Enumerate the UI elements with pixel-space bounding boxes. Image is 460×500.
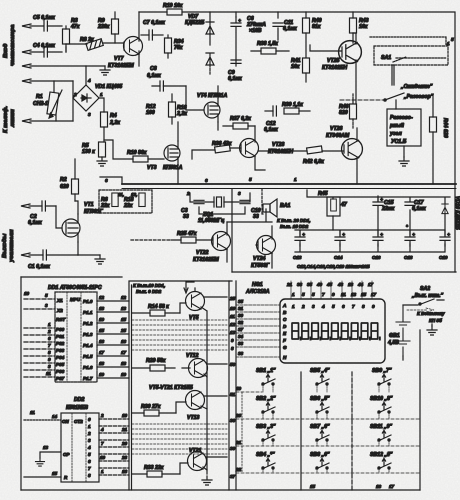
capacitor C8 [152,81,186,91]
svg-text:16: 16 [122,469,128,474]
svg-text:21: 21 [286,282,293,287]
button SB6 [316,402,329,413]
capacitor C1 [29,250,78,260]
svg-text:CP: CP [63,452,70,457]
svg-text:SB8 „0”: SB8 „0” [310,452,330,458]
button SB8 [316,458,329,469]
svg-text:R19 10к: R19 10к [163,3,183,9]
svg-text:13: 13 [230,330,236,335]
svg-text:31: 31 [238,306,244,311]
svg-text:0: 0 [88,417,91,422]
svg-text:0,1мк: 0,1мк [412,206,426,212]
svg-text:A: A [282,303,286,308]
resistor R4 [101,112,108,142]
svg-text:56: 56 [230,362,236,367]
svg-text:SB11 „9”: SB11 „9” [370,424,393,430]
svg-text:22мк: 22мк [381,206,395,212]
svg-text:2,2к: 2,2к [176,111,187,117]
svg-text:R30 27к: R30 27к [141,404,161,410]
svg-text:32: 32 [238,320,244,325]
svg-text:38: 38 [238,351,244,356]
svg-text:11: 11 [230,314,235,319]
svg-text:47: 47 [340,202,348,208]
svg-text:BA1: BA1 [280,203,290,209]
svg-text:SB9 „7”: SB9 „7” [372,368,392,374]
svg-text:5: 5 [88,452,91,457]
svg-text:2: 2 [100,413,104,418]
svg-text:0,1мк: 0,1мк [283,26,297,32]
svg-text:20: 20 [235,413,242,418]
display HG1 box [280,299,385,363]
svg-text:18: 18 [348,282,354,287]
wire left bus of power area [262,189,263,214]
svg-text:P1.1: P1.1 [83,310,93,315]
svg-text:HG1: HG1 [252,282,263,288]
svg-text:P35: P35 [56,362,65,367]
speaker BA1 [263,199,277,217]
svg-text:1: 1 [88,424,91,429]
svg-text:5: 5 [45,293,48,298]
svg-text:21: 21 [121,427,128,432]
capacitor C7 [141,30,163,40]
svg-text:6: 6 [48,336,51,341]
capacitor C17 [405,202,415,205]
svg-text:E: E [283,331,287,336]
svg-text:C13: C13 [293,255,302,260]
svg-text:1: 1 [292,304,295,309]
svg-text:КТ940АМ: КТ940АМ [326,133,350,139]
svg-text:R38 1,5к: R38 1,5к [257,41,278,47]
outer frame bottom [21,489,420,491]
capacitor C5 [44,21,62,31]
svg-text:4: 4 [87,445,91,450]
svg-text:Разгово-: Разгово- [390,115,413,121]
resistor R40 [303,12,310,57]
ground VT1 source [95,255,105,264]
ground under VT21 [202,476,212,485]
svg-text:Вык. 9 DD2: Вык. 9 DD2 [136,289,162,294]
svg-text:VT4 КП501А: VT4 КП501А [197,93,228,99]
svg-text:P1.6: P1.6 [83,365,93,370]
svg-text:16: 16 [376,484,382,489]
svg-text:19: 19 [99,372,105,377]
svg-text:17: 17 [368,282,374,287]
wire node R4/R5 to R10 [104,140,133,159]
transistor VT13 [186,391,205,410]
outer frame left vertical [20,277,22,490]
svg-text:P1.4: P1.4 [83,343,93,348]
resistor R8 (trimmer) [86,39,103,51]
svg-text:25: 25 [229,296,236,301]
section divider x129 [129,281,232,490]
wire driver matrix rows 1 [132,320,227,350]
svg-text:39: 39 [230,446,236,451]
svg-text:R36 43к: R36 43к [212,141,232,147]
svg-text:12: 12 [121,295,127,300]
svg-text:44: 44 [357,282,364,287]
svg-text:SB7 „6”: SB7 „6” [310,424,330,430]
svg-text:3: 3 [312,304,315,309]
svg-text:X2: X2 [56,308,63,313]
svg-text:R45: R45 [318,191,328,197]
svg-text:1: 1 [292,292,295,297]
resistor R3 [63,26,70,52]
svg-text:P1.7: P1.7 [83,376,93,381]
svg-text:16: 16 [121,339,127,344]
svg-text:усилителя: усилителя [9,229,15,263]
svg-text:51: 51 [230,392,236,397]
svg-text:P1.3: P1.3 [83,332,93,337]
svg-text:5: 5 [332,304,335,309]
svg-text:11,059МГц: 11,059МГц [198,218,225,224]
svg-text:GB1: GB1 [389,333,400,339]
svg-text:P31: P31 [56,334,65,339]
svg-text:9: 9 [48,357,51,362]
svg-text:P1.2: P1.2 [83,321,93,326]
svg-text:SB10 „8”: SB10 „8” [370,396,393,402]
wire DD1 left pins [24,299,55,377]
svg-text:33: 33 [253,214,259,220]
resistor R43 [350,12,357,43]
capacitor C6 electrolytic [231,17,242,32]
svg-text:R33 22к: R33 22к [144,465,164,471]
resistor R18 [139,193,145,207]
svg-text:33: 33 [238,341,244,346]
transistor VT26 [342,139,363,160]
svg-text:20: 20 [121,441,128,446]
svg-text:VT21: VT21 [189,448,202,454]
transistor VT4 (MOSFET) [204,98,220,122]
wire power top rail [307,190,450,230]
svg-text:R4: R4 [110,113,117,119]
svg-text:„Ожидание”: „Ожидание” [400,84,433,90]
svg-text:C13,C14,C16,C18,C19 110мк×16Б: C13,C14,C16,C18,C19 110мк×16Б [297,264,370,269]
wire R8 to VT7 base [66,43,124,52]
svg-text:6: 6 [88,459,91,464]
IC DD1 box [55,292,97,382]
svg-text:*: * [296,224,298,229]
svg-text:8: 8 [48,350,51,355]
capacitor C9 [231,60,241,63]
svg-text:1: 1 [447,41,450,46]
svg-text:2: 2 [87,431,91,436]
svg-text:18: 18 [99,306,105,311]
svg-text:C7 0,1мк: C7 0,1мк [143,20,165,26]
svg-text:9: 9 [332,292,335,297]
svg-text:22: 22 [235,467,242,472]
wire crystal net [190,193,250,214]
svg-text:КТ3102ЕМ: КТ3102ЕМ [108,63,134,69]
svg-text:13: 13 [121,306,127,311]
button SB5 [316,374,329,385]
svg-text:8: 8 [231,346,234,351]
svg-text:*: * [406,224,408,229]
resistor R6 [112,193,118,207]
svg-text:VT3: VT3 [147,165,157,171]
svg-text:9: 9 [231,338,234,343]
wire dotted boundary above SA1 [370,37,446,46]
svg-text:14: 14 [52,414,58,419]
wire top rail [139,12,455,272]
svg-text:5: 5 [451,37,454,42]
svg-text:SB4 „*”: SB4 „*” [256,452,275,458]
svg-text:SB5 „4”: SB5 „4” [310,368,330,374]
svg-text:СН2-1: СН2-1 [33,101,48,107]
resistor R34 [165,35,172,58]
svg-text:10: 10 [122,413,128,418]
svg-text:100: 100 [146,110,155,116]
svg-text:10: 10 [100,455,106,460]
svg-text:SB12 „#”: SB12 „#” [370,452,393,458]
svg-text:R29 56к: R29 56к [146,358,166,364]
wire input arrows top [22,24,105,68]
transistor VT24 [257,236,276,255]
svg-text:0,1мк: 0,1мк [228,76,242,82]
resistor R37 [223,123,255,129]
svg-text:30: 30 [238,313,244,318]
svg-text:34: 34 [238,334,244,339]
svg-text:VT13: VT13 [187,415,200,421]
svg-text:11: 11 [46,371,51,376]
resistor R36 [215,145,231,153]
regulator R45 box [327,197,340,216]
svg-text:DD2: DD2 [74,397,84,403]
capacitor C19 [440,231,451,246]
wire capacitor bank rails [295,230,445,252]
resistor R46 [350,94,357,128]
svg-text:4: 4 [87,78,91,83]
svg-text:MPU: MPU [70,297,81,302]
svg-text:P34: P34 [56,355,65,360]
svg-text:6: 6 [205,178,208,183]
ground (input) [100,66,110,75]
keypad right border [419,330,421,490]
button SB2 [262,402,275,413]
svg-text:C4 0,1мк: C4 0,1мк [33,43,55,49]
wire keypad row lines [236,392,420,473]
transistor VT22 [212,232,231,251]
svg-text:8: 8 [362,304,365,309]
svg-text:37: 37 [230,474,236,479]
svg-text:P36: P36 [56,369,65,374]
power section bottom border [232,271,456,273]
capacitor C12 [265,106,276,116]
svg-text:КП 5б: КП 5б [429,317,442,323]
transistor VT21 [188,452,207,471]
svg-text:12: 12 [99,295,105,300]
wire segment lines to display [236,305,280,357]
svg-text:3: 3 [238,191,241,196]
svg-text:VT1: VT1 [84,202,94,208]
svg-text:15: 15 [99,328,105,333]
svg-text:R1: R1 [36,94,43,100]
svg-text:УС1.Б: УС1.Б [391,139,407,145]
svg-text:К Выв.10 DD1,: К Выв.10 DD1, [133,283,165,288]
svg-text:35: 35 [238,299,244,304]
svg-text:КТ3102ЕН: КТ3102ЕН [322,65,347,71]
svg-text:линии: линии [10,109,16,128]
svg-text:4: 4 [321,304,325,309]
svg-text:10к: 10к [291,64,300,70]
svg-text:VT26: VT26 [330,126,343,132]
svg-text:91к: 91к [312,24,321,30]
svg-text:SA1: SA1 [381,55,391,61]
svg-text:R42 6,8к: R42 6,8к [303,159,324,165]
svg-text:К Вешалону: К Вешалону [417,311,445,316]
svg-text:B: B [283,310,287,315]
svg-text:0,1мк: 0,1мк [28,220,42,226]
svg-text:4,5В: 4,5В [387,340,399,346]
svg-text:G: G [283,345,287,350]
resistor R44 [430,95,437,184]
svg-text:15: 15 [52,471,58,476]
resistor R29 [132,365,175,371]
svg-text:КП501А: КП501А [163,165,183,171]
svg-text:SB2 „2”: SB2 „2” [256,396,276,402]
capacitor C18 [405,231,416,246]
svg-text:47к: 47к [70,24,80,30]
svg-text:Выходы: Выходы [2,234,8,258]
capacitor C16 [373,231,384,246]
button SB11 [378,430,391,441]
svg-text:36: 36 [230,418,236,423]
wire arrow top of driver section [184,282,194,293]
svg-text:2,2к: 2,2к [109,120,120,126]
capacitor C14 [335,231,346,246]
svg-text:P30: P30 [56,327,65,332]
svg-text:220к: 220к [97,24,110,30]
svg-text:Выв. 16 DD2: Выв. 16 DD2 [280,224,309,229]
svg-text:38: 38 [297,282,303,287]
button SB10 [378,402,391,413]
svg-text:1: 1 [294,177,297,182]
svg-text:К561ИЕ8: К561ИЕ8 [66,405,88,411]
svg-text:7: 7 [48,343,51,348]
block Разговорный узел [387,109,421,146]
svg-text:SB3 „3”: SB3 „3” [256,424,276,430]
svg-text:43: 43 [337,282,344,287]
resistor R30 [132,410,176,416]
svg-text:C18: C18 [404,255,413,260]
transistor VT23 [240,139,259,158]
battery GB1 [396,305,410,356]
svg-text:23: 23 [121,455,128,460]
transistor VT3 (MOSFET) [164,141,180,165]
wire DD2 input pins [24,419,61,421]
svg-text:21: 21 [235,440,242,445]
svg-text:3: 3 [45,303,48,308]
svg-text:620: 620 [60,184,69,190]
wire telephone input [22,79,73,123]
svg-text:рный: рный [389,122,405,129]
svg-text:SA2: SA2 [420,286,430,292]
svg-text:C: C [283,317,287,322]
svg-text:C14: C14 [334,255,343,260]
svg-text:R: R [64,475,68,480]
svg-text:5: 5 [312,292,315,297]
svg-text:X1: X1 [56,298,63,303]
transistor VT5 [186,292,205,311]
svg-text:VD10 КД522Б: VD10 КД522Б [454,196,460,230]
svg-text:3: 3 [88,438,91,443]
wire DD2 output pins [99,419,129,475]
resistor R41 [303,58,310,82]
svg-text:CN: CN [62,419,69,424]
svg-text:P37: P37 [56,376,65,381]
resistor R19 [167,9,182,15]
svg-text:R10 86к: R10 86к [127,150,147,156]
resistor R39 [284,108,310,114]
wire SA1 to Ожидание switch [392,65,394,85]
svg-text:17: 17 [99,350,105,355]
resistor R25 [171,237,212,243]
svg-text:17: 17 [389,484,395,489]
svg-text:R8 2к: R8 2к [80,37,94,43]
svg-text:C16: C16 [372,255,381,260]
svg-text:VD1 КЦ405: VD1 КЦ405 [95,84,122,90]
svg-text:10к: 10к [359,24,368,30]
svg-text:2: 2 [301,304,305,309]
capacitor C15 [373,196,384,211]
switch SA1 dashed box [374,46,448,65]
svg-text:10: 10 [230,306,236,311]
svg-text:RST: RST [56,317,66,322]
button SB9 [378,374,391,385]
svg-text:19: 19 [99,317,105,322]
section border bottom-left top edge [21,276,122,278]
svg-text:SB1 „1”: SB1 „1” [256,368,276,374]
transistor VT12 [189,359,208,378]
svg-text:1: 1 [100,92,103,97]
bridge rectifier VD1 [73,85,99,111]
svg-text:19: 19 [236,386,242,391]
wire bus horizontal (net 6) [122,183,456,185]
resistor R5 [99,142,106,157]
svg-text:VT7: VT7 [114,56,125,62]
svg-text:4: 4 [100,427,104,432]
svg-text:10: 10 [24,291,30,296]
svg-text:22к: 22к [123,203,133,209]
resistor R16 [169,94,176,124]
svg-text:15: 15 [121,317,127,322]
svg-text:7: 7 [352,304,355,309]
button SB3 [262,430,275,441]
ground under R5 [97,157,107,166]
wire VT22 base dashed from left [131,239,171,241]
wire button column links [263,384,273,473]
svg-text:R14 56 к: R14 56 к [148,304,169,310]
resistor R33 [132,471,180,477]
section divider right pair [229,281,236,490]
svg-text:R44 620: R44 620 [442,118,448,138]
svg-text:P33: P33 [56,348,65,353]
svg-text:37: 37 [238,327,244,332]
svg-text:АЛС318А: АЛС318А [245,289,270,295]
svg-text:CT2: CT2 [74,419,83,424]
svg-text:„Разговор”: „Разговор” [403,94,434,100]
svg-text:VT5-VT21 КТ315Б: VT5-VT21 КТ315Б [149,385,193,391]
svg-text:130 к: 130 к [82,149,95,155]
resistor R2 [72,159,79,201]
capacitor C3 [194,200,204,203]
svg-text:75к: 75к [174,45,183,51]
svg-text:R2: R2 [60,177,67,183]
diode VD8 [206,53,214,74]
ground near battery [427,326,437,335]
button SB12 [378,458,391,469]
svg-text:5: 5 [249,177,252,182]
transistor VT25 [339,41,362,64]
